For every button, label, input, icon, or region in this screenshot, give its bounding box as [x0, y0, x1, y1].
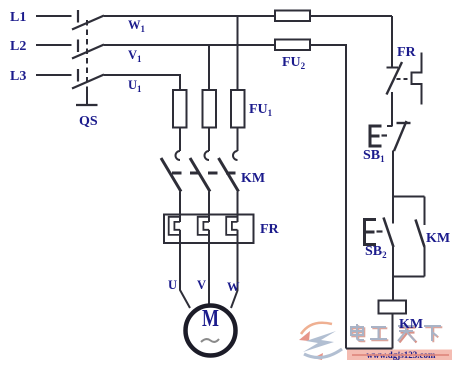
switch QS pole 2 blade — [72, 45, 104, 59]
button SB1 actuator link dash — [382, 134, 388, 136]
wire KM contact 3 to FR — [237, 192, 239, 223]
relay FR linkage (dashed) — [397, 78, 411, 80]
thermal relay FR heater 3 — [226, 217, 237, 235]
contactor KM linkage (dashed) — [172, 172, 238, 175]
watermark character xia (red shadow) — [425, 327, 442, 342]
watermark logo swirl — [299, 323, 342, 360]
wire V1 right segment to control rail — [310, 44, 347, 46]
wire SB2 upper terminal — [392, 197, 394, 224]
button SB2 actuator E — [365, 218, 377, 246]
watermark character gong — [370, 327, 387, 339]
wire SB2 lower terminal — [392, 247, 394, 301]
relay FR trip element bracket — [412, 53, 422, 105]
wire FU1 pole3 to KM contact 3 — [237, 128, 239, 152]
svg-text:V: V — [197, 278, 206, 292]
switch QS pole 3 fixed contact — [77, 69, 79, 82]
svg-text:KM: KM — [399, 317, 423, 332]
wire U1 (bottom phase) segment — [104, 75, 180, 90]
coil KM rectangle — [379, 301, 407, 314]
button SB2 actuator link dash — [377, 230, 383, 232]
wire W1 right segment to control branch — [310, 15, 392, 17]
wire SB1 to SB2 node — [392, 151, 394, 197]
fuse FU2 upper — [275, 11, 310, 22]
watermark character xia — [424, 326, 441, 341]
svg-text:W1: W1 — [128, 18, 146, 34]
svg-text:KM: KM — [241, 171, 265, 186]
fuse FU2 lower — [275, 40, 310, 51]
fuse FU1 pole 1 — [173, 90, 187, 128]
svg-text:KM: KM — [426, 231, 450, 246]
wire control rail from FU2 lower — [345, 45, 347, 349]
wire FU1 pole2 to KM contact 2 — [208, 128, 210, 152]
button SB1 actuator E — [370, 125, 382, 148]
wire V1 (middle phase) left segment — [104, 44, 275, 46]
svg-text:FR: FR — [397, 45, 417, 60]
thermal relay FR box — [164, 215, 254, 244]
button SB1 fixed tick — [387, 125, 393, 127]
wire drop from V1 to FU1 pole 2 — [208, 45, 210, 90]
relay FR NC contact fixed bar — [387, 67, 399, 69]
switch QS pole 1 blade — [72, 16, 104, 30]
svg-text:M: M — [202, 306, 219, 332]
svg-text:SB1: SB1 — [363, 148, 385, 164]
motor M circle — [186, 306, 236, 356]
thermal relay FR heater 1 — [169, 217, 180, 235]
svg-text:FU2: FU2 — [282, 55, 306, 71]
watermark character tian (red shadow) — [400, 328, 417, 343]
contactor KM main contact 3 blade — [219, 158, 239, 192]
wire KM contact 1 to FR — [179, 192, 181, 223]
watermark character dian — [351, 324, 364, 340]
wire W1 (top phase) left segment — [104, 15, 275, 17]
svg-text:FR: FR — [260, 222, 280, 237]
svg-text:QS: QS — [79, 114, 98, 129]
button SB1 blade — [394, 121, 407, 151]
watermark character gong (red shadow) — [371, 328, 388, 340]
contactor KM main contact 3 fixed hook — [233, 151, 238, 160]
wire FU1 pole1 to KM contact 1 — [179, 128, 181, 152]
switch QS pole 2 fixed contact — [77, 40, 79, 53]
thermal relay FR heater 2 — [198, 217, 209, 235]
contact KM auxiliary blade — [416, 220, 425, 248]
switch QS pole 1 fixed contact — [77, 10, 79, 23]
button SB2 blade — [384, 218, 394, 248]
wire KM contact 2 to FR — [208, 192, 210, 223]
motor AC tilde — [201, 339, 219, 342]
wire L3 feed — [36, 74, 72, 76]
switch QS handle bar — [76, 104, 98, 106]
svg-text:W: W — [227, 280, 240, 294]
wire L2 feed — [36, 44, 72, 46]
fuse FU1 pole 2 — [203, 90, 217, 128]
switch QS linkage (dashed) — [86, 20, 88, 91]
contactor KM main contact 1 fixed hook — [176, 151, 181, 160]
wire bottom return — [346, 348, 393, 350]
wire parallel branch bottom bar — [393, 276, 425, 278]
wire coil KM to bottom — [392, 314, 394, 349]
svg-text:FU1: FU1 — [249, 102, 273, 118]
wire FR contact to SB1 — [391, 92, 393, 126]
svg-text:U1: U1 — [128, 78, 142, 94]
contactor KM main contact 2 blade — [190, 158, 210, 192]
svg-text:L3: L3 — [10, 69, 26, 84]
wire parallel branch top bar — [393, 196, 425, 198]
wire FR to motor terminal U — [180, 230, 190, 308]
svg-text:SB2: SB2 — [365, 244, 387, 260]
wire FR to motor terminal W — [231, 230, 238, 308]
contact KM auxiliary upper terminal — [424, 197, 426, 226]
svg-text:L2: L2 — [10, 39, 26, 54]
wire drop from W1 to FU1 pole 3 — [237, 16, 239, 90]
wire control branch from W1 down to FR contact — [391, 16, 393, 67]
relay FR NC contact blade — [387, 62, 403, 95]
contact KM auxiliary lower terminal — [424, 247, 426, 277]
wire L1 feed — [36, 15, 72, 17]
svg-text:L1: L1 — [10, 10, 26, 25]
contactor KM main contact 1 blade — [161, 158, 181, 192]
svg-text:U: U — [168, 278, 177, 292]
wire FR to motor terminal V — [208, 230, 210, 305]
svg-text:V1: V1 — [128, 48, 142, 64]
watermark banner — [347, 350, 452, 361]
button SB1 bridge bar — [397, 122, 411, 124]
watermark character dian (red shadow) — [352, 325, 365, 341]
fuse FU1 pole 3 — [231, 90, 245, 128]
contactor KM main contact 2 fixed hook — [205, 151, 209, 160]
switch QS pole 3 blade — [72, 75, 104, 89]
watermark character tian — [398, 326, 415, 341]
